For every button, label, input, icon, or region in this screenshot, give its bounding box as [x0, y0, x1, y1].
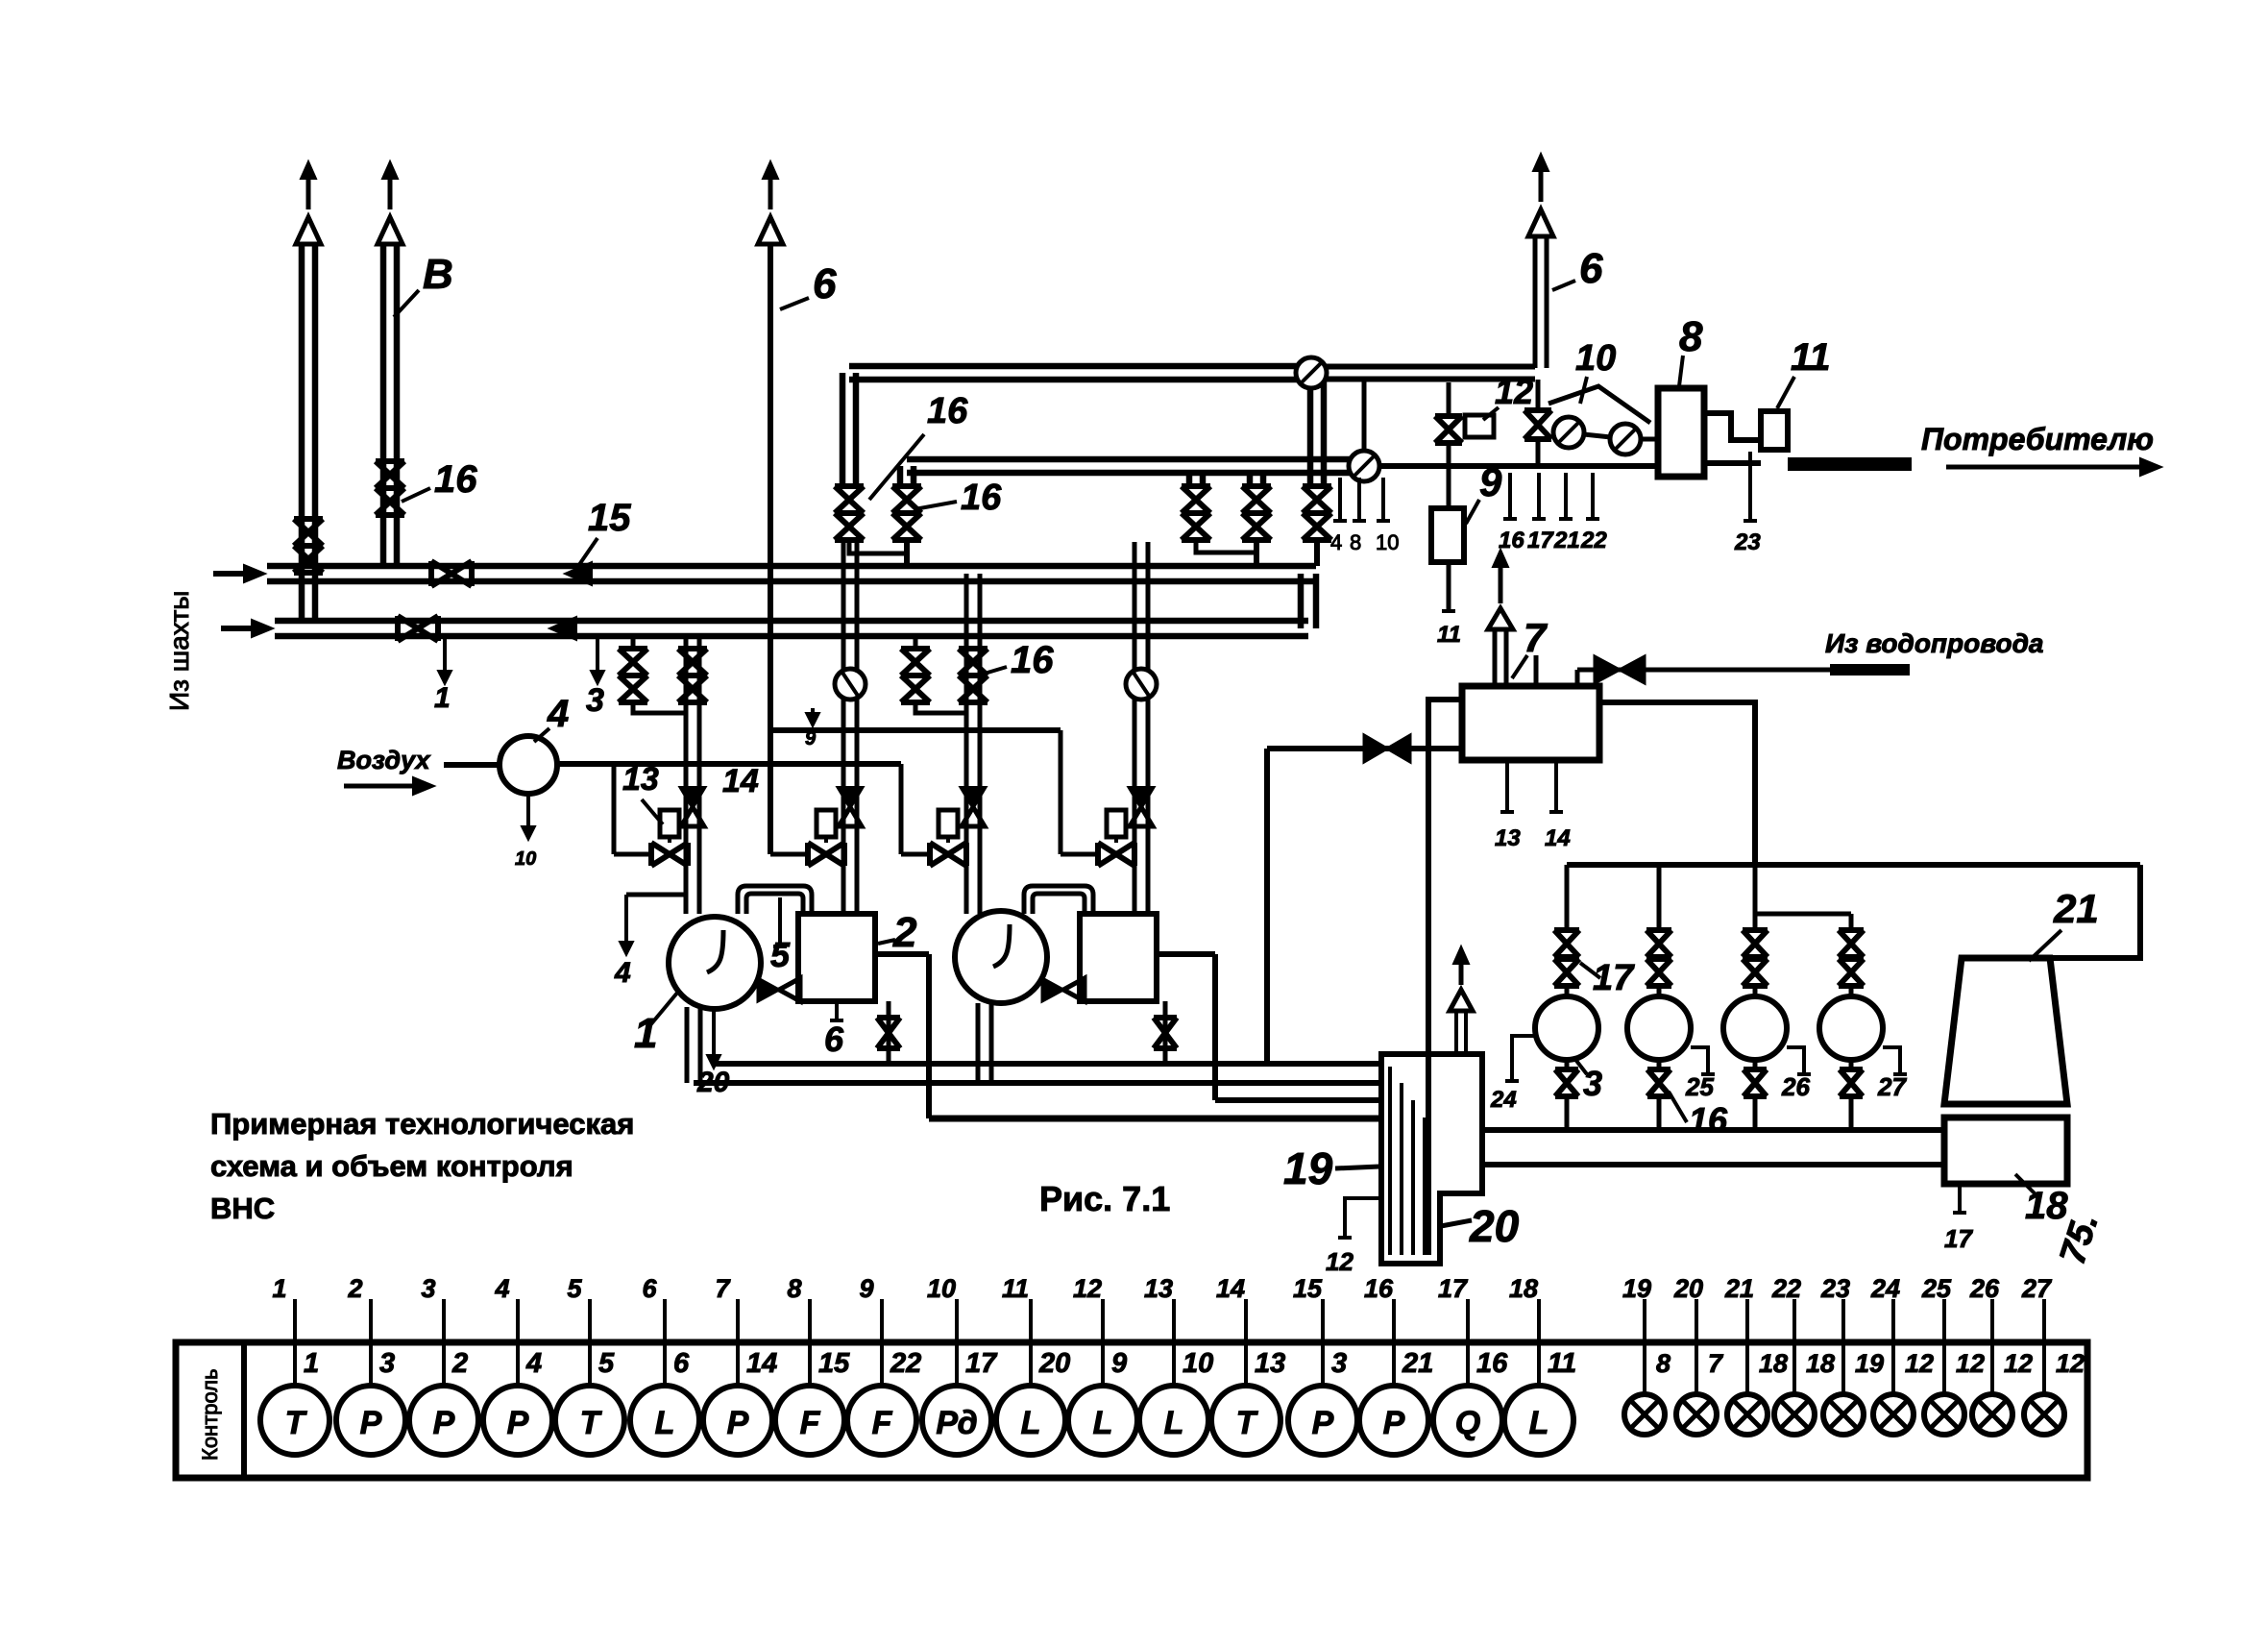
svg-text:21: 21 [1402, 1348, 1433, 1379]
svg-text:1: 1 [272, 1274, 286, 1303]
svg-text:18: 18 [1509, 1274, 1538, 1303]
svg-text:26: 26 [1781, 1072, 1810, 1101]
svg-text:23: 23 [1820, 1274, 1850, 1303]
svg-text:8: 8 [787, 1274, 801, 1303]
svg-text:Рд: Рд [936, 1405, 977, 1441]
svg-text:Из водопровода: Из водопровода [1825, 628, 2043, 658]
svg-text:7: 7 [715, 1274, 731, 1303]
svg-text:12: 12 [1956, 1349, 1985, 1378]
svg-text:14: 14 [722, 763, 759, 799]
svg-text:6: 6 [673, 1348, 690, 1379]
svg-text:13: 13 [1255, 1348, 1285, 1379]
svg-text:10: 10 [515, 848, 536, 870]
svg-text:Р: Р [727, 1405, 749, 1441]
svg-text:11: 11 [1002, 1274, 1029, 1303]
svg-text:F: F [800, 1405, 821, 1441]
svg-text:2: 2 [892, 909, 917, 956]
svg-text:7: 7 [1708, 1349, 1724, 1378]
svg-text:3: 3 [1331, 1348, 1347, 1379]
svg-text:16: 16 [1476, 1348, 1508, 1379]
svg-text:19: 19 [1622, 1274, 1651, 1303]
svg-text:Р: Р [1312, 1405, 1334, 1441]
svg-text:9: 9 [805, 728, 817, 749]
svg-text:3: 3 [1583, 1064, 1602, 1103]
svg-text:9: 9 [1479, 459, 1502, 504]
svg-text:27: 27 [2021, 1274, 2053, 1303]
svg-text:7: 7 [1524, 615, 1548, 660]
svg-text:Р: Р [433, 1405, 455, 1441]
svg-text:22: 22 [1580, 528, 1607, 553]
svg-text:9: 9 [1111, 1348, 1127, 1379]
svg-text:10: 10 [1183, 1348, 1213, 1379]
svg-text:11: 11 [1437, 622, 1461, 648]
svg-text:16: 16 [1689, 1100, 1728, 1140]
svg-text:5: 5 [770, 935, 791, 974]
svg-text:19: 19 [1855, 1349, 1884, 1378]
svg-text:20: 20 [1038, 1348, 1070, 1379]
svg-text:12: 12 [1495, 372, 1533, 411]
svg-text:Т: Т [580, 1405, 603, 1441]
svg-text:14: 14 [1545, 825, 1571, 851]
svg-text:15: 15 [1293, 1274, 1323, 1303]
svg-text:21: 21 [1553, 528, 1580, 553]
svg-text:20: 20 [1469, 1201, 1520, 1251]
svg-text:13: 13 [1495, 825, 1521, 851]
svg-text:22: 22 [1771, 1274, 1801, 1303]
svg-text:17: 17 [1527, 528, 1554, 553]
svg-text:4: 4 [547, 693, 569, 735]
svg-text:F: F [872, 1405, 893, 1441]
svg-text:16: 16 [1364, 1274, 1394, 1303]
svg-text:12: 12 [1326, 1247, 1353, 1276]
svg-text:2: 2 [347, 1274, 362, 1303]
svg-text:Примерная технологическая: Примерная технологическая [210, 1107, 634, 1141]
svg-text:L: L [1021, 1405, 1041, 1441]
svg-text:Из шахты: Из шахты [164, 591, 194, 711]
svg-text:Р: Р [360, 1405, 382, 1441]
svg-text:В: В [423, 251, 453, 298]
svg-text:L: L [1164, 1405, 1184, 1441]
svg-text:15: 15 [818, 1348, 850, 1379]
svg-text:Q: Q [1455, 1405, 1480, 1441]
svg-text:3: 3 [586, 682, 604, 719]
svg-text:16: 16 [1011, 639, 1054, 681]
svg-text:13: 13 [622, 761, 659, 798]
svg-text:6: 6 [1579, 245, 1603, 292]
svg-text:6: 6 [642, 1274, 657, 1303]
svg-text:12: 12 [2004, 1349, 2033, 1378]
svg-text:12: 12 [1905, 1349, 1934, 1378]
svg-text:10: 10 [1376, 530, 1399, 554]
svg-text:16: 16 [927, 391, 968, 431]
svg-text:16: 16 [961, 478, 1002, 518]
svg-text:ВНС: ВНС [210, 1192, 275, 1225]
svg-text:1: 1 [434, 682, 451, 714]
svg-text:3: 3 [379, 1348, 395, 1379]
svg-text:13: 13 [1144, 1274, 1173, 1303]
svg-text:Контроль: Контроль [198, 1368, 222, 1461]
svg-text:8: 8 [1350, 530, 1361, 554]
svg-text:1: 1 [634, 1010, 657, 1057]
svg-text:18: 18 [1759, 1349, 1788, 1378]
svg-text:5: 5 [567, 1274, 582, 1303]
svg-text:L: L [1093, 1405, 1113, 1441]
svg-text:17: 17 [1438, 1274, 1469, 1303]
svg-text:25: 25 [1921, 1274, 1952, 1303]
svg-text:4: 4 [525, 1348, 542, 1379]
svg-text:3: 3 [421, 1274, 435, 1303]
svg-text:Потребителю: Потребителю [1921, 422, 2154, 456]
svg-text:схема и объем контроля: схема и объем контроля [210, 1149, 573, 1183]
svg-text:11: 11 [1791, 336, 1831, 379]
svg-text:17: 17 [965, 1348, 998, 1379]
svg-text:14: 14 [1216, 1274, 1245, 1303]
svg-text:6: 6 [824, 1020, 844, 1059]
svg-text:11: 11 [1548, 1348, 1576, 1379]
svg-text:L: L [655, 1405, 675, 1441]
svg-text:10: 10 [1575, 338, 1616, 379]
svg-text:Т: Т [1236, 1405, 1259, 1441]
svg-text:Р: Р [507, 1405, 529, 1441]
svg-text:21: 21 [1724, 1274, 1754, 1303]
svg-text:Т: Т [285, 1405, 308, 1441]
svg-text:16: 16 [434, 458, 477, 501]
svg-text:6: 6 [813, 260, 837, 307]
svg-text:20: 20 [1673, 1274, 1703, 1303]
svg-text:2: 2 [451, 1348, 468, 1379]
svg-text:24: 24 [1490, 1087, 1517, 1113]
svg-text:8: 8 [1679, 313, 1703, 360]
svg-text:19: 19 [1283, 1143, 1333, 1193]
svg-text:21: 21 [2053, 886, 2099, 931]
svg-text:24: 24 [1870, 1274, 1900, 1303]
svg-text:4: 4 [614, 957, 631, 989]
svg-text:15: 15 [588, 497, 631, 539]
svg-text:16: 16 [1499, 528, 1524, 553]
svg-text:Воздух: Воздух [337, 746, 430, 774]
svg-text:9: 9 [859, 1274, 873, 1303]
svg-text:L: L [1529, 1405, 1549, 1441]
svg-text:12: 12 [2056, 1349, 2085, 1378]
svg-text:4: 4 [494, 1274, 509, 1303]
svg-text:1: 1 [304, 1348, 319, 1379]
svg-text:18: 18 [1806, 1349, 1835, 1378]
svg-text:10: 10 [927, 1274, 956, 1303]
svg-text:17: 17 [1944, 1224, 1973, 1253]
svg-text:Р: Р [1383, 1405, 1405, 1441]
svg-text:5: 5 [598, 1348, 615, 1379]
svg-text:27: 27 [1877, 1072, 1907, 1101]
svg-text:Рис. 7.1: Рис. 7.1 [1039, 1179, 1170, 1218]
svg-text:8: 8 [1656, 1349, 1671, 1378]
svg-text:4: 4 [1330, 530, 1342, 554]
svg-text:26: 26 [1969, 1274, 2000, 1303]
svg-text:12: 12 [1073, 1274, 1102, 1303]
svg-text:22: 22 [890, 1348, 921, 1379]
svg-text:25: 25 [1685, 1072, 1714, 1101]
svg-text:14: 14 [746, 1348, 777, 1379]
svg-text:23: 23 [1734, 529, 1761, 555]
